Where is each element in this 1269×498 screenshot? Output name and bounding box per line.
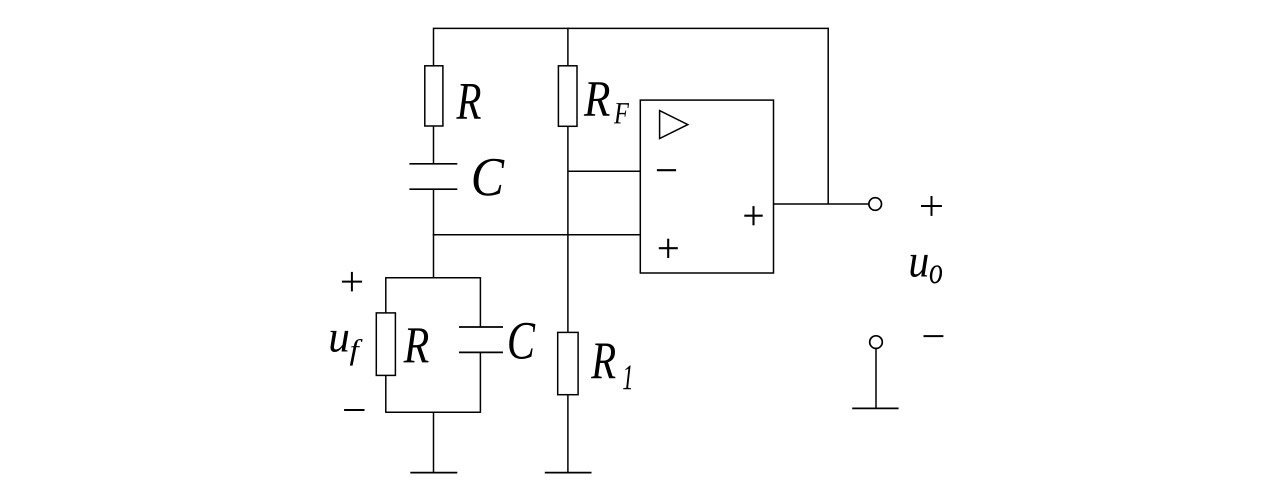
wire R1 to ground 2 <box>567 395 569 473</box>
wire node B to op-amp inverting input <box>568 170 640 172</box>
wire top feedback rail <box>434 27 829 29</box>
label R1 subscript 1 <box>623 365 631 389</box>
wire parallel RC left branch lower <box>385 375 387 413</box>
label C (parallel capacitor) <box>509 323 535 359</box>
wire left branch drop to R <box>433 28 435 66</box>
wire stem to ground 1 <box>433 412 435 472</box>
wire parallel RC bottom rail <box>386 411 481 413</box>
wire node A down to parallel RC <box>433 234 435 278</box>
wire terminal - to ground 3 <box>875 348 877 408</box>
wire top rail drop to RF <box>567 28 569 66</box>
ground 2 <box>545 472 592 474</box>
resistor RF <box>558 66 577 127</box>
label uo value u <box>910 255 927 277</box>
resistor R (series branch) <box>425 66 443 126</box>
label RF value R <box>584 82 610 115</box>
label R (parallel resistor) <box>403 328 428 362</box>
op-amp U1 gain triangle <box>660 111 688 139</box>
label uf value u <box>330 331 348 352</box>
label C (series capacitor) <box>474 159 505 196</box>
label uo subscript o <box>930 265 942 283</box>
wire feedback from output node to top rail <box>827 28 829 204</box>
label R1 value R <box>591 343 615 378</box>
plus sign (uo top) <box>921 196 942 216</box>
label RF subscript F <box>614 103 629 123</box>
op-amp U1 body <box>640 100 773 273</box>
wire parallel RC right branch lower <box>479 352 481 413</box>
op-amp U1 inverting input marker <box>657 169 676 171</box>
wire parallel RC top rail <box>386 277 481 279</box>
minus sign (uf bottom) <box>344 409 364 411</box>
wire parallel RC left branch upper <box>385 277 387 313</box>
op-amp U1 output polarity marker <box>744 206 762 225</box>
ground 3 <box>852 407 898 409</box>
capacitor C (series branch) <box>409 164 457 189</box>
wire op-amp output <box>774 203 869 205</box>
label uf subscript f <box>350 339 363 366</box>
ground 1 <box>410 472 457 474</box>
plus sign (uf top) <box>342 272 362 292</box>
minus sign (uo bottom) <box>924 335 944 337</box>
wire node A to op-amp noninverting input <box>433 234 641 236</box>
wire parallel RC right branch upper <box>479 277 481 327</box>
resistor R1 <box>558 332 578 394</box>
op-amp U1 noninverting input marker <box>659 239 678 258</box>
resistor R (parallel branch) <box>376 313 395 376</box>
output terminal + <box>869 198 882 211</box>
wire R to C <box>433 126 435 164</box>
wire C to node A <box>433 189 435 235</box>
capacitor C (parallel branch) <box>459 327 503 352</box>
label R (series resistor) <box>456 84 480 119</box>
output terminal - <box>870 336 883 349</box>
wire RF bottom to R1 top (through nodes) <box>567 126 569 332</box>
